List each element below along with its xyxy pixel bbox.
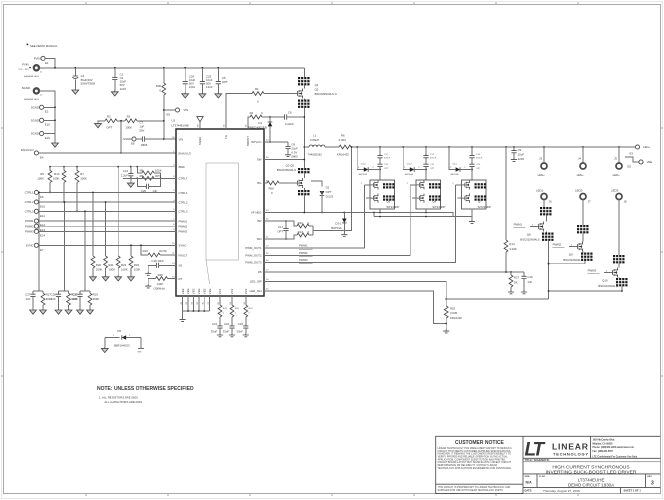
node dots on /REF line xyxy=(49,166,138,168)
VEE pin labels rotated xyxy=(181,288,212,294)
diode D1 PMEG4002EB xyxy=(248,117,272,143)
svg-text:REV.: REV. xyxy=(647,476,652,478)
svg-text:R27: R27 xyxy=(514,276,520,280)
U1 top pin numbers xyxy=(197,124,247,127)
svg-text:LED1-: LED1- xyxy=(536,188,544,192)
svg-text:SS: SS xyxy=(179,264,183,268)
resistor R5 xyxy=(37,167,52,194)
svg-text:CIRCUIT BOARD LAYOUT MAY SIGNI: CIRCUIT BOARD LAYOUT MAY SIGNIFICANTLY A… xyxy=(438,461,512,464)
svg-text:BSC039N04LS G: BSC039N04LS G xyxy=(315,92,337,96)
svg-text:E14: E14 xyxy=(40,233,45,237)
svg-text:PWM3: PWM3 xyxy=(179,229,188,233)
U1 left pin numbers xyxy=(172,137,175,278)
svg-text:143K: 143K xyxy=(157,282,164,286)
resistor R25 xyxy=(145,273,176,291)
wire PWM1 line xyxy=(39,220,177,222)
kelvin wire to R6 xyxy=(313,146,352,235)
capacitor C23 xyxy=(237,322,249,337)
svg-text:LED2-: LED2- xyxy=(575,188,583,192)
svg-text:SGND: SGND xyxy=(31,132,39,136)
svg-text:100K: 100K xyxy=(121,268,128,272)
svg-text:PWM1: PWM1 xyxy=(179,219,188,223)
capacitor C9 xyxy=(511,147,524,161)
svg-text:OPT: OPT xyxy=(222,80,228,84)
svg-text:R21: R21 xyxy=(108,263,114,267)
svg-text:J5: J5 xyxy=(614,157,617,161)
capacitor C14 xyxy=(121,167,134,180)
linear technology logo xyxy=(525,440,589,461)
turret E16 SGND xyxy=(31,131,55,139)
svg-text:R25: R25 xyxy=(158,273,164,277)
svg-text:CTRL2: CTRL2 xyxy=(179,200,188,204)
vref pullup wire xyxy=(50,166,176,168)
transistor Q10 BSC010N04LS xyxy=(598,255,627,291)
svg-text:D1: D1 xyxy=(258,121,262,125)
svg-text:D5: D5 xyxy=(117,329,121,333)
wire VF NEG xyxy=(264,212,453,217)
svg-text:VEE: VEE xyxy=(197,288,201,294)
capacitor C25 xyxy=(199,68,213,98)
svg-text:VEE: VEE xyxy=(202,288,206,294)
svg-text:R4: R4 xyxy=(250,111,254,115)
transistor Q1 Q2 BSC039N04LS xyxy=(295,68,337,168)
svg-text:Q1: Q1 xyxy=(315,83,319,87)
wire J2 to sgnd rail xyxy=(39,91,55,134)
svg-text:PMEG4002EB: PMEG4002EB xyxy=(248,126,267,130)
svg-text:R14: R14 xyxy=(509,242,515,246)
wire PWM2 line xyxy=(39,225,177,227)
svg-text:VC2: VC2 xyxy=(230,288,234,294)
svg-text:PWM2: PWM2 xyxy=(553,242,562,246)
resistor R22 pulldown xyxy=(115,167,128,281)
svg-text:THIS CIRCUIT IS PROPRIETARY TO: THIS CIRCUIT IS PROPRIETARY TO LINEAR TE… xyxy=(438,486,511,489)
svg-text:C28: C28 xyxy=(51,293,57,297)
svg-text:VEE: VEE xyxy=(137,352,142,354)
svg-text:309K: 309K xyxy=(93,297,100,301)
svg-text:CTRL2: CTRL2 xyxy=(25,200,34,204)
svg-text:R00: R00 xyxy=(156,84,162,88)
svg-text:100K: 100K xyxy=(108,268,115,272)
resistor R27 xyxy=(508,272,520,294)
banana jack J2 xyxy=(22,86,43,101)
ground left of D5 xyxy=(101,338,108,353)
svg-text:CTRL1: CTRL1 xyxy=(25,191,34,195)
node dots on LED+ rail xyxy=(356,146,620,148)
wire PWM_OUT1 xyxy=(264,185,364,249)
svg-text:E3: E3 xyxy=(630,151,634,155)
title block frame xyxy=(523,436,660,493)
svg-text:E10: E10 xyxy=(40,205,45,209)
svg-text:PWM2: PWM2 xyxy=(299,251,308,255)
svg-text:Q8: Q8 xyxy=(527,232,531,236)
svg-text:SHEET 1 OF 1: SHEET 1 OF 1 xyxy=(624,489,642,493)
diode D4-1 BAT54A xyxy=(449,147,472,176)
transistor Q9 BSC010N04LS xyxy=(563,225,592,264)
svg-text:(300kHz): (300kHz) xyxy=(153,287,165,291)
svg-text:PWM_OUT1: PWM_OUT1 xyxy=(245,246,262,250)
wire BOOST xyxy=(248,117,250,129)
svg-text:VEE: VEE xyxy=(181,288,185,294)
U1 right pin labels xyxy=(245,140,262,293)
turret E14 PWM3 xyxy=(25,229,45,237)
wire divider tap to EN/UVLO xyxy=(120,120,122,154)
svg-text:R9: R9 xyxy=(140,174,144,178)
resistor R06 xyxy=(264,181,295,195)
svg-text:R12: R12 xyxy=(298,221,304,225)
svg-text:50HVT56M: 50HVT56M xyxy=(81,82,96,86)
resistor R16 xyxy=(140,244,176,256)
turret E7 SYNC xyxy=(26,243,44,252)
branch wire CTRL3 to filter xyxy=(84,210,86,291)
svg-text:D4-1: D4-1 xyxy=(453,163,459,165)
svg-text:10uF: 10uF xyxy=(518,153,525,157)
wire E1 to bus xyxy=(45,58,55,67)
svg-text:SGND: SGND xyxy=(31,119,39,123)
svg-text:BAT54A: BAT54A xyxy=(331,226,341,230)
svg-text:2.2uF: 2.2uF xyxy=(121,174,129,178)
address text xyxy=(593,439,638,459)
ground for R2 divider xyxy=(95,121,105,128)
svg-text:PWM_OUT2: PWM_OUT2 xyxy=(245,254,262,258)
diode D5 xyxy=(105,329,141,347)
gate net PWM1 for Q8 xyxy=(514,222,536,227)
inductor L1 xyxy=(303,134,339,157)
turret E11 CTRL3 xyxy=(25,209,46,218)
svg-text:C19: C19 xyxy=(527,275,533,279)
capacitor C11 C10 xyxy=(377,147,390,180)
svg-text:C9: C9 xyxy=(518,148,522,152)
svg-text:LED_ISN: LED_ISN xyxy=(250,289,262,293)
svg-text:SEE DEMO MANUAL: SEE DEMO MANUAL xyxy=(30,44,58,48)
capacitor C24 xyxy=(182,68,196,98)
ground below CTRLT node xyxy=(127,178,134,187)
svg-text:LED+: LED+ xyxy=(613,173,621,177)
connector J5 xyxy=(613,147,622,177)
svg-text:PWM1: PWM1 xyxy=(514,222,523,226)
svg-text:PWM1: PWM1 xyxy=(25,219,34,223)
svg-text:VIN: VIN xyxy=(183,108,188,112)
wire CTRL2 line xyxy=(39,201,177,203)
svg-text:PWM2: PWM2 xyxy=(179,224,188,228)
svg-text:Q4: Q4 xyxy=(432,200,436,204)
svg-text:R2: R2 xyxy=(107,115,111,119)
svg-text:BSC026N04LS: BSC026N04LS xyxy=(277,168,296,172)
svg-text:HOWEVER, IT REMAINS THE CUSTOM: HOWEVER, IT REMAINS THE CUSTOMER'S RESPO… xyxy=(438,453,512,456)
svg-text:TECHNOLOGY APPLICATIONS ENGINE: TECHNOLOGY APPLICATIONS ENGINEERING FOR … xyxy=(438,467,512,470)
capacitor C28 with resistor R18 xyxy=(51,291,78,314)
size ic no rev row xyxy=(525,476,655,488)
transistor Q6 SiT234DP xyxy=(361,180,400,209)
wire CTRL3 line xyxy=(39,210,177,212)
svg-text:OPT: OPT xyxy=(106,126,112,130)
resistor R12 xyxy=(297,221,313,228)
U1 top pin labels xyxy=(198,135,250,146)
svg-text:PVIN: PVIN xyxy=(34,57,41,61)
resistor R1 xyxy=(252,87,295,103)
svg-text:J8: J8 xyxy=(624,200,627,204)
svg-text:R13: R13 xyxy=(298,230,304,234)
note text xyxy=(97,386,194,404)
wire CTRL1 line xyxy=(39,191,177,193)
capacitor C4 xyxy=(72,68,96,94)
svg-text:C22: C22 xyxy=(224,322,230,326)
svg-text:BAT54A: BAT54A xyxy=(405,173,414,176)
resistor R9 xyxy=(136,174,161,180)
svg-text:CTRL3: CTRL3 xyxy=(25,210,34,214)
turret E13 PWM2 xyxy=(25,224,45,232)
resistor R13 xyxy=(297,230,313,237)
connector J7 LED2- xyxy=(575,188,591,225)
svg-text:R22: R22 xyxy=(121,263,127,267)
svg-text:Q2: Q2 xyxy=(315,87,319,91)
svg-text:TG: TG xyxy=(224,135,228,139)
svg-text:1nF: 1nF xyxy=(527,280,532,284)
main input bus wire xyxy=(39,67,304,69)
svg-text:EN/UVLO: EN/UVLO xyxy=(179,151,192,155)
svg-text:1210: 1210 xyxy=(206,85,213,89)
capacitor C8 xyxy=(285,142,298,159)
svg-text:470uF: 470uF xyxy=(476,158,483,160)
wire between R2 R3 xyxy=(117,120,125,122)
svg-text:470uF: 470uF xyxy=(384,158,391,160)
svg-text:LINEAR TECHNOLOGY HAS MADE A B: LINEAR TECHNOLOGY HAS MADE A BEST EFFORT… xyxy=(438,447,513,450)
svg-text:0.003: 0.003 xyxy=(339,138,347,142)
svg-text:1nF: 1nF xyxy=(25,297,30,301)
svg-text:SGND: SGND xyxy=(22,86,30,90)
svg-text:R7: R7 xyxy=(80,172,84,176)
svg-text:OPT: OPT xyxy=(277,229,283,233)
wire Q4 bottom stub xyxy=(425,209,427,213)
svg-text:VEE: VEE xyxy=(208,288,212,294)
svg-text:VEE: VEE xyxy=(192,288,196,294)
svg-text:SiT234DP: SiT234DP xyxy=(478,205,491,209)
svg-text:100K: 100K xyxy=(155,168,162,172)
wire LED_ISN xyxy=(264,291,447,324)
svg-text:0805: 0805 xyxy=(141,143,148,147)
resistor R4 xyxy=(250,111,270,119)
wire CTRLT line xyxy=(123,177,176,179)
svg-text:C17: C17 xyxy=(278,225,284,229)
connector J4 xyxy=(577,147,586,177)
svg-text:E9: E9 xyxy=(167,113,171,117)
resistor R00 xyxy=(156,68,166,139)
customer notice box xyxy=(436,436,523,493)
capacitor C22 xyxy=(223,322,235,337)
svg-text:TITLE: SCHEMATIC: TITLE: SCHEMATIC xyxy=(525,458,550,462)
svg-text:Q6: Q6 xyxy=(386,200,390,204)
svg-text:100K: 100K xyxy=(125,126,132,130)
svg-text:1. ALL RESISTORS ARE 0603.: 1. ALL RESISTORS ARE 0603. xyxy=(99,395,139,399)
svg-text:BSC010N04LS: BSC010N04LS xyxy=(520,238,539,242)
svg-text:0.22uF: 0.22uF xyxy=(285,122,294,126)
svg-text:U1: U1 xyxy=(172,119,176,123)
svg-text:0.005: 0.005 xyxy=(450,311,458,315)
svg-text:1210: 1210 xyxy=(189,85,196,89)
resistor R02 sense xyxy=(444,306,462,324)
svg-text:VC1: VC1 xyxy=(218,288,222,294)
diode D3-2 BAT54A xyxy=(357,147,380,176)
branch wire CTRL2 to filter xyxy=(64,201,66,291)
capacitor C16 C13 xyxy=(469,147,482,180)
svg-text:VF NEG: VF NEG xyxy=(251,211,262,215)
svg-text:E8: E8 xyxy=(131,142,135,146)
svg-text:100K: 100K xyxy=(37,177,44,181)
svg-text:OPT: OPT xyxy=(430,168,435,170)
svg-text:1630 McCarthy Blvd.: 1630 McCarthy Blvd. xyxy=(593,439,616,442)
wire FB with R14 xyxy=(264,147,524,273)
svg-text:LINEAR: LINEAR xyxy=(552,442,589,452)
svg-text:R5: R5 xyxy=(40,172,44,176)
svg-text:L1: L1 xyxy=(313,134,317,138)
resistor R10 xyxy=(53,167,66,203)
wire R3 to VIN vertical xyxy=(137,120,165,122)
svg-text:OPT: OPT xyxy=(326,190,332,194)
banana jack J1 xyxy=(18,62,43,78)
resistor R21 pulldown xyxy=(102,201,115,281)
svg-text:VEE: VEE xyxy=(186,288,190,294)
svg-text:VERIFY PROPER AND RELIABLE OPE: VERIFY PROPER AND RELIABLE OPERATION IN … xyxy=(438,455,509,458)
svg-text:KRL6432: KRL6432 xyxy=(450,316,462,320)
svg-text:J3: J3 xyxy=(539,157,542,161)
svg-text:Milpitas, CA 95035: Milpitas, CA 95035 xyxy=(593,442,614,445)
svg-text:PWM2: PWM2 xyxy=(25,224,34,228)
svg-text:DATE:: DATE: xyxy=(525,489,533,493)
customer notice text xyxy=(438,440,513,492)
svg-text:SIZE: SIZE xyxy=(525,476,530,478)
svg-text:Q3 Q5: Q3 Q5 xyxy=(286,163,295,167)
capacitor C19 xyxy=(521,272,533,294)
resistor R2 xyxy=(105,115,117,130)
svg-text:SGND: SGND xyxy=(123,137,131,141)
turret E4 EN/UVLO xyxy=(21,148,44,159)
svg-text:R19: R19 xyxy=(93,293,99,297)
turret E6 CTRL1 xyxy=(25,190,44,199)
svg-text:BG: BG xyxy=(257,181,261,185)
U1 left pin labels xyxy=(179,137,192,281)
svg-text:470uF: 470uF xyxy=(430,158,437,160)
svg-text:3.3V - 36V: 3.3V - 36V xyxy=(18,69,29,71)
capacitor C12 C15 xyxy=(423,147,436,180)
svg-text:EN/UVLO: EN/UVLO xyxy=(21,148,34,152)
svg-text:SYNC: SYNC xyxy=(26,244,34,248)
date sheet row xyxy=(525,489,642,493)
svg-text:FB: FB xyxy=(258,270,262,274)
gate net PWM2 for Q9 xyxy=(553,242,575,247)
svg-text:744055182: 744055182 xyxy=(308,152,323,156)
ground below sgnd rail xyxy=(52,134,59,148)
capacitor C21 xyxy=(211,322,223,337)
svg-text:LED+: LED+ xyxy=(538,173,546,177)
connector J3 xyxy=(538,147,547,177)
svg-text:SGND: SGND xyxy=(31,106,39,110)
wire EN/UVLO line xyxy=(39,152,177,154)
diode D3-1 BAT54A xyxy=(331,213,347,237)
svg-text:SiT234DP: SiT234DP xyxy=(386,205,399,209)
svg-text:SW: SW xyxy=(257,158,262,162)
svg-text:R16: R16 xyxy=(143,249,149,253)
wire Q6 bottom stub xyxy=(379,209,381,213)
svg-text:ISP: ISP xyxy=(257,219,262,223)
svg-text:1nF: 1nF xyxy=(51,297,56,301)
svg-text:PERFORMANCE OR RELIABILITY. C: PERFORMANCE OR RELIABILITY. CONTACT LINE… xyxy=(438,464,498,467)
resistor R23 pulldown xyxy=(128,244,141,281)
svg-text:DI123: DI123 xyxy=(326,194,334,198)
connector J8 LED3- xyxy=(611,188,627,255)
svg-text:E5: E5 xyxy=(628,164,632,168)
svg-text:33nF: 33nF xyxy=(223,329,230,333)
svg-text:CTRLT: CTRLT xyxy=(179,177,188,181)
turret E10 CTRL2 xyxy=(25,200,46,209)
svg-text:R20: R20 xyxy=(96,263,102,267)
svg-text:C6: C6 xyxy=(288,111,292,115)
svg-text:SYNC: SYNC xyxy=(179,244,187,248)
svg-text:BSC010N04LS-: BSC010N04LS- xyxy=(598,284,618,288)
svg-text:J7: J7 xyxy=(588,200,591,204)
resistor R3 xyxy=(125,115,137,130)
svg-text:LED+: LED+ xyxy=(577,173,585,177)
svg-text:FAULT: FAULT xyxy=(179,253,188,257)
capacitor C18 xyxy=(145,259,176,275)
svg-text:TECHNOLOGY: TECHNOLOGY xyxy=(553,451,588,456)
svg-text:OPT: OPT xyxy=(384,168,389,170)
svg-text:OPT: OPT xyxy=(476,168,481,170)
svg-text:APPLICATION. COMPONENT SUBSTI: APPLICATION. COMPONENT SUBSTITUTION AND … xyxy=(438,458,506,461)
U1 right pin numbers xyxy=(266,140,269,291)
U1 bottom VEE pin stubs xyxy=(183,296,210,312)
svg-text:N/A: N/A xyxy=(526,481,533,485)
svg-text:5K: 5K xyxy=(514,280,518,284)
capacitor C5 xyxy=(215,68,228,98)
svg-text:0805: 0805 xyxy=(291,155,298,159)
svg-text:1210: 1210 xyxy=(120,87,127,91)
transistor Q8 BSC010N04LS xyxy=(520,207,553,299)
ground below R02 xyxy=(443,324,449,333)
svg-text:DEMO CIRCUIT 1930A: DEMO CIRCUIT 1930A xyxy=(568,483,614,488)
wire LED_ISP xyxy=(264,282,447,307)
svg-text:R23: R23 xyxy=(134,263,140,267)
svg-text:E6: E6 xyxy=(40,195,44,199)
svg-text:Q10: Q10 xyxy=(602,278,608,282)
turret E3 LED+ xyxy=(630,145,651,156)
turret E12 PWM1 xyxy=(25,219,45,227)
transistor Q4 SiT234DP xyxy=(407,180,446,209)
svg-text:LED+: LED+ xyxy=(643,145,651,149)
svg-text:Q9: Q9 xyxy=(569,252,573,256)
svg-text:D4-2: D4-2 xyxy=(407,163,413,165)
transistor Q3 Q5 BSC026N04LS xyxy=(277,163,310,212)
capacitor C17 xyxy=(277,220,288,240)
svg-text:IC NO.: IC NO. xyxy=(539,476,546,478)
connector J6 LED1- xyxy=(536,188,552,207)
svg-text:R06: R06 xyxy=(269,186,275,190)
turret E2 SGND xyxy=(31,105,56,113)
wire SW xyxy=(264,159,305,161)
node dots on bus xyxy=(54,67,219,69)
svg-text:Phone: (408)432-1900 www.li: Phone: (408)432-1900 www.linear.com xyxy=(593,446,634,449)
svg-text:LED3-: LED3- xyxy=(611,188,619,192)
svg-text:E16: E16 xyxy=(45,136,50,140)
op-amp U1 LT3744EUHE body xyxy=(172,119,265,296)
svg-text:Q7: Q7 xyxy=(478,200,482,204)
transistor Q7 SiT234DP xyxy=(452,180,491,209)
svg-text:D3-2: D3-2 xyxy=(361,163,367,165)
svg-text:Fax: (408)434-0507: Fax: (408)434-0507 xyxy=(593,450,614,453)
turret E1 PVIN xyxy=(34,56,49,65)
svg-text:BAT54A: BAT54A xyxy=(451,173,460,176)
svg-text:C21: C21 xyxy=(212,322,218,326)
svg-text:D3-1: D3-1 xyxy=(335,221,342,225)
svg-text:INTVCC: INTVCC xyxy=(251,140,262,144)
